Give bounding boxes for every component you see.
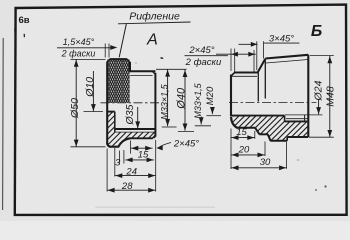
dim Ø35 line — [135, 107, 140, 129]
dim M33x1.5 A line — [165, 69, 170, 126]
dim 24 line — [115, 173, 156, 178]
part B bore line — [231, 115, 285, 117]
part B stub bottom edge — [237, 127, 256, 129]
dim M20 line — [210, 107, 215, 114]
dim 15 A line — [131, 146, 153, 151]
Рифление leader — [119, 24, 126, 57]
dim M33x1.5 A ext bottom — [162, 126, 177, 128]
part B axis centerline — [229, 102, 317, 104]
part A body right face — [154, 73, 156, 137]
part B stub thread thin line — [232, 75, 257, 77]
part A body end chamfer top — [152, 71, 155, 74]
part B stub top edge — [234, 72, 258, 74]
part B body thread thin line — [266, 60, 308, 64]
dim 3 label — [115, 158, 121, 169]
faint smudge 2 — [95, 207, 215, 208]
part B step chamfer 2 — [268, 134, 271, 140]
part B body left face — [264, 59, 266, 99]
part B bottom edge mid2 — [270, 140, 287, 142]
dim Ø50 ext line bottom — [71, 146, 106, 148]
dim Ø35 label — [124, 104, 136, 125]
part A section hatch — [68, 66, 192, 190]
dim 15 B line — [231, 135, 255, 140]
speck dot1 — [315, 189, 317, 191]
part B bottom edge right — [287, 136, 308, 138]
part B cone to body — [258, 59, 266, 73]
dim M33x1.5 B ext — [195, 125, 211, 127]
dim Ø50 label — [69, 98, 81, 119]
dim Ø40 label — [175, 87, 187, 110]
dim 30 line — [231, 165, 287, 170]
dim Ø40 ext bottom — [178, 130, 194, 132]
chamfer ext line A x109 — [108, 44, 110, 58]
dim Ø10 label — [84, 77, 96, 98]
part B mouth thread thin line — [286, 118, 308, 120]
part A knurled head band (Рифление) — [79, 28, 157, 133]
ext line B x254 short — [253, 50, 255, 72]
fraction bar A — [57, 47, 111, 49]
page edge line left — [2, 38, 5, 210]
ext line A x114.8 — [114, 148, 116, 177]
dim 20 line — [231, 153, 265, 158]
fraction bar B — [185, 55, 228, 57]
dim M33x1.5 A label — [159, 83, 169, 119]
ext line A x119.4 — [118, 151, 120, 165]
3×45 dim line — [239, 42, 258, 47]
dim 28 line — [107, 188, 156, 193]
ext line B x265 down — [264, 142, 266, 157]
dim M20 ext — [207, 115, 222, 117]
dim Ø40 line — [183, 70, 188, 131]
part B stub right face — [257, 73, 259, 102]
part B mouth inner chamfer — [304, 115, 306, 121]
part B body top edge — [265, 55, 308, 59]
ext line A x107 — [106, 149, 108, 192]
dim M48 ext top — [310, 55, 334, 57]
chamfer ext line A x105 — [104, 44, 106, 58]
part A axis centerline — [101, 102, 162, 104]
dim Ø24 ext — [285, 114, 323, 116]
ext line B x286.6 down — [286, 142, 288, 169]
part B bottom edge mid1 — [259, 133, 268, 135]
part A head right face — [129, 62, 131, 71]
dim M48 label — [324, 86, 336, 107]
dim 3 arrows line — [125, 158, 154, 163]
part A body bottom edge — [130, 137, 153, 139]
part A body top edge — [130, 70, 156, 72]
dim Ø50 line — [74, 60, 79, 147]
part B bottom step up — [286, 137, 288, 141]
faint smudge 1 — [297, 159, 300, 161]
dim 20 label — [238, 144, 250, 155]
B chamfer dim line — [216, 52, 256, 57]
dim Ø24 label — [312, 80, 324, 101]
part A bore thread thin line — [115, 131, 156, 133]
figure label 6в — [18, 15, 29, 26]
dim 24 label — [125, 166, 137, 177]
dim M33x1.5 A ext top — [156, 68, 187, 70]
dim 15 B label — [236, 127, 247, 138]
dim M20 label — [205, 86, 216, 105]
part A head-body bottom fillet — [118, 138, 130, 146]
part A head top-right chamfer — [127, 59, 130, 62]
part B stub left face — [230, 75, 232, 117]
label 2×45° B — [188, 45, 214, 56]
part A head bottom-left round — [107, 143, 111, 147]
ext line A x130.5 — [130, 141, 132, 154]
faint smudge 3 — [135, 62, 137, 64]
label 2 фаски B — [185, 57, 222, 68]
chamfer dim arrow A — [110, 45, 117, 50]
dim M33x1.5 B line — [199, 117, 204, 125]
part A inner wall face — [114, 112, 116, 133]
part B body right face — [307, 55, 309, 137]
part B step chamfer 1 — [255, 128, 260, 135]
ext line B x256.8 — [256, 41, 258, 70]
dim Ø24 line — [316, 99, 321, 114]
Рифление underline — [118, 22, 191, 24]
view label А — [146, 32, 158, 49]
ext line A x123.9 — [123, 150, 125, 164]
dim M33x1.5 B label — [193, 82, 203, 118]
dim 28 label — [121, 181, 133, 192]
part B mouth thread line — [285, 120, 308, 122]
speck dot2 — [324, 185, 326, 187]
part A body thread thin line — [130, 75, 152, 77]
part A head top-left chamfer — [107, 59, 110, 62]
dim Ø50 ext line top — [71, 58, 106, 60]
speck dash — [161, 57, 164, 60]
part B section hatch — [190, 48, 349, 207]
speck tick — [23, 34, 25, 37]
part A head left face — [106, 62, 108, 145]
part B stub bottom-left round — [231, 117, 238, 128]
view label Б — [311, 23, 322, 40]
part B bore step — [284, 116, 286, 122]
part A head top edge — [110, 58, 128, 60]
dim M48 ext bottom — [309, 136, 334, 138]
part A head bottom edge — [110, 146, 120, 148]
dim Ø10 line — [91, 71, 96, 111]
dim Ø10 ext line — [84, 111, 104, 113]
ext line B x231 down — [230, 129, 232, 170]
label 1,5×45° — [63, 37, 95, 47]
speck comma — [14, 29, 15, 33]
label Рифление — [129, 10, 180, 22]
ext line B x254.8 down — [254, 131, 256, 139]
ext line B x263.5 — [263, 41, 265, 58]
part A bore line — [115, 128, 156, 130]
label 2×45° bottom — [173, 138, 199, 149]
ext line B x231 up — [230, 49, 232, 72]
dim 30 label — [260, 157, 271, 168]
2×45° bottom leader — [156, 143, 171, 151]
dim 15 A label — [138, 149, 149, 160]
label 2 фаски A — [61, 48, 96, 58]
ext line B x234.7 up — [234, 49, 236, 72]
part A body end chamfer bottom — [152, 135, 155, 138]
fraction bar 3x45 — [264, 42, 299, 44]
part B stub top-left chamfer — [231, 73, 235, 77]
label 3×45° — [269, 33, 294, 44]
part A center hole edge — [107, 111, 115, 113]
ext line A x155.7 — [155, 140, 157, 192]
dim M48 line — [327, 56, 332, 137]
